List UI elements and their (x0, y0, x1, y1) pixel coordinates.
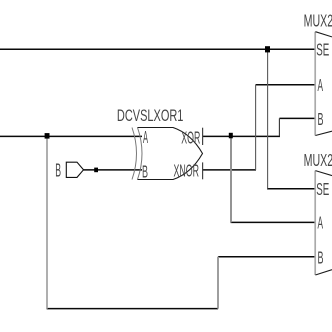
svg-text:B: B (318, 247, 324, 267)
svg-text:MUX2: MUX2 (304, 11, 332, 31)
svg-text:XOR: XOR (181, 127, 200, 147)
svg-text:B: B (318, 109, 324, 129)
svg-text:B: B (142, 161, 148, 181)
svg-text:A: A (143, 127, 148, 147)
svg-text:SE: SE (316, 179, 329, 199)
svg-text:MUX2: MUX2 (304, 150, 332, 170)
svg-text:B: B (55, 160, 61, 181)
svg-text:A: A (318, 213, 324, 233)
svg-text:SE: SE (316, 40, 329, 60)
svg-text:A: A (318, 75, 324, 95)
svg-text:DCVSLXOR1: DCVSLXOR1 (117, 106, 183, 125)
svg-text:XNOR: XNOR (174, 161, 200, 181)
